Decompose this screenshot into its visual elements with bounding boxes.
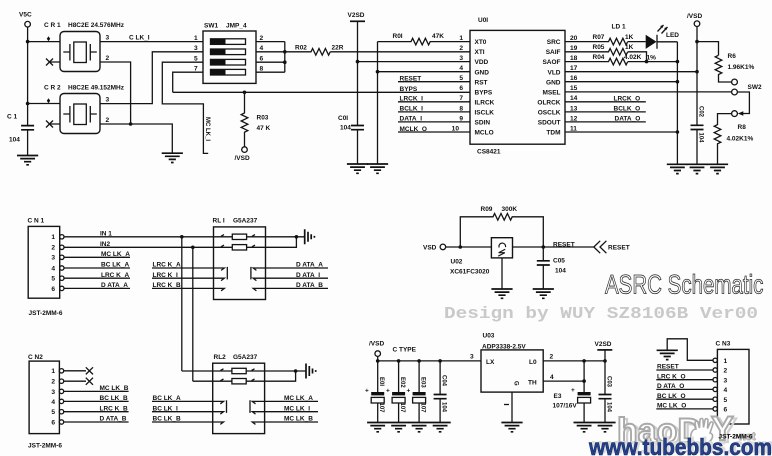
wire MCLK_B stub CN2.3 [64,390,129,392]
svg-text:2: 2 [106,117,110,124]
svg-text:R03: R03 [257,115,269,122]
switch SW2 [732,79,762,116]
node junction rail E03 [417,359,421,363]
ground below C04 [430,423,451,432]
node junction RESET/C05 [542,245,546,249]
relay RL2 G5A237 [182,354,265,434]
wire U03 L0 output to V2SD [543,360,605,362]
power /VSD below R03 [235,147,250,162]
svg-text:3: 3 [459,55,463,62]
svg-text:D ATA_I: D ATA_I [296,272,320,279]
wire CR1.2 down to CR2.2 net [100,62,131,124]
svg-text:3: 3 [51,389,55,396]
svg-text:V2SD: V2SD [595,341,612,348]
wire IN2 down to RL2 coil [192,247,194,381]
svg-text:5: 5 [724,397,728,404]
svg-text:C TYPE: C TYPE [393,347,417,354]
ground below C1 [17,156,38,165]
svg-text:2: 2 [550,354,554,361]
wire CR2.3 up to SW1.3 [100,52,203,104]
node junction SW1 bus pin4 [283,50,287,54]
svg-text:47 K: 47 K [257,125,271,132]
resistor R09 300K [460,206,543,247]
ground for CR2.2 [162,153,183,162]
svg-text:BC LK_B: BC LK_B [100,395,128,402]
wire U03 TH to output node [543,361,584,392]
svg-text:107: 107 [378,403,384,414]
wire V5C vertical rail [27,27,29,125]
svg-text:D ATA_O: D ATA_O [657,383,684,390]
svg-text:SDIN: SDIN [475,120,491,127]
wire LRCK_A stub CN1.5 [64,277,130,279]
svg-text:R04: R04 [593,54,605,61]
ground below U03 [501,423,522,432]
capacitor C01 104 [338,115,364,164]
svg-text:4: 4 [51,265,55,272]
wire R01/GND vertical rail [377,42,379,164]
svg-text:E03: E03 [419,377,425,388]
svg-text:2: 2 [459,45,463,52]
capacitor C05 104 [537,247,566,289]
wire CN2.2 no-connect [64,378,93,385]
power V5C [19,12,32,28]
wire GND row U01.16 [565,81,677,83]
svg-text:C05: C05 [553,258,565,265]
wire CN3.1 to ground [667,339,713,361]
wire RESET stub CN3.2 [656,369,713,371]
ground below E3 [574,423,595,432]
svg-text:TH: TH [528,379,537,386]
ground below C03 [594,423,615,432]
svg-text:CS8421: CS8421 [477,149,501,156]
svg-text:U0I: U0I [478,17,488,24]
wire /VSD to R6 [697,42,719,56]
svg-text:XC61FC3020: XC61FC3020 [450,268,490,275]
svg-text:LRCK_I: LRCK_I [400,96,424,103]
wire IN2 net CN1.2 to RL1 coil [64,246,214,248]
connector CN1 JST-2MM-6 [28,218,65,317]
svg-text:G5A237: G5A237 [233,354,258,361]
wire LRCK_I stub to U01.7 [398,101,470,103]
svg-text:IN 1: IN 1 [100,230,112,237]
svg-text:U02: U02 [451,259,463,266]
svg-text:104: 104 [698,133,704,144]
node junction CR1.2/CR2.2 [129,122,133,126]
svg-text:4.02K1%: 4.02K1% [727,135,754,142]
svg-text:LED: LED [666,32,679,39]
svg-text:1: 1 [724,358,728,365]
svg-text:LRC K_B: LRC K_B [153,282,181,289]
svg-text:LRC K_A: LRC K_A [101,272,129,279]
svg-text:104: 104 [9,137,20,144]
svg-text:ILRCK: ILRCK [475,99,495,106]
svg-text:MC LK_A: MC LK_A [284,395,313,402]
svg-text:V5C: V5C [19,12,32,19]
svg-text:E0I: E0I [378,377,384,386]
svg-text:/VSD: /VSD [235,155,250,162]
resistor R8 4.02K1% [714,114,753,165]
node junction rail/GND row [676,80,680,84]
svg-text:6: 6 [51,286,55,293]
wire DATA_I stub to U01.9 [398,121,470,123]
svg-text:4: 4 [51,399,55,406]
capacitor E01 107 (electrolytic) [365,377,384,423]
svg-text:OLRCK: OLRCK [537,99,560,106]
node junction output/E3 [582,359,586,363]
power V2SD top [348,12,366,126]
svg-text:C02: C02 [698,106,704,118]
wire BCLK_O stub CN3.5 [656,398,713,400]
svg-text:R05: R05 [593,44,605,51]
node junction /VSD to R6 [695,40,699,44]
capacitor E02 107 (electrolytic) [386,361,405,423]
svg-text:+: + [386,388,390,395]
svg-text:+: + [365,388,369,395]
svg-text:JST-2MM-6: JST-2MM-6 [28,443,62,450]
svg-text:SW1: SW1 [204,23,218,30]
svg-text:RESET: RESET [400,76,422,83]
svg-text:SW2: SW2 [748,84,762,91]
svg-text:C R 2: C R 2 [44,84,61,91]
capacitor C02 104 [691,106,704,164]
svg-text:+: + [571,387,575,394]
node junction rail E01 [376,359,380,363]
node junction TH/E3 [582,379,586,383]
node off-page connector RESET [594,241,630,253]
svg-text:17: 17 [570,65,578,72]
node pin1 mark [504,404,509,406]
resistor R6 1.96K1% [715,53,754,82]
svg-text:2: 2 [51,245,55,252]
wire /VSD rail to U03 LX [378,360,481,362]
svg-text:LRCK_O: LRCK_O [614,96,641,103]
wire OLRCK stub U01.14 [565,101,646,103]
wire MCLK_O stub to U01.10 [398,131,470,133]
svg-text:BC LK_A: BC LK_A [101,262,129,269]
wire VLD row U01.17 [565,71,697,73]
svg-text:107: 107 [419,403,425,414]
wire OSCLK stub U01.13 [565,111,646,113]
svg-text:104: 104 [440,402,446,413]
svg-text:D ATA_B: D ATA_B [100,416,127,423]
wire MCLK_A from RL2 contact [265,400,318,402]
power /VSD top right [687,13,702,125]
svg-text:104: 104 [605,402,611,413]
svg-text:C N3: C N3 [716,341,731,348]
svg-text:MCLK_O: MCLK_O [400,126,427,133]
svg-text:RL I: RL I [213,218,225,225]
svg-text:104: 104 [340,125,351,132]
power /VSD at regulator input [369,341,384,393]
wire TDM row U01.11 [565,131,677,133]
svg-text:JMP_4: JMP_4 [226,23,247,30]
ground RL1 (right facing) [305,229,315,244]
wire V5C to CR2 pin+ [28,103,60,105]
watermark www.tubebbs.com [588,433,772,456]
node junction R05/R04 [645,60,649,64]
svg-text:1: 1 [51,234,55,241]
svg-text:15: 15 [570,85,578,92]
relay RL1 G5A237 [213,218,266,300]
svg-text:8: 8 [260,65,264,72]
svg-text:MC LK_I: MC LK_I [204,117,210,141]
node junction V5C-CR1 [26,40,30,44]
capacitor E03 107 (electrolytic) [407,361,426,423]
ground below GND rail [367,164,388,173]
svg-text:LRC K_I: LRC K_I [153,272,178,279]
node junction GND rail [376,70,380,74]
wire R05 to R04 row [628,52,647,62]
wire MCLK_I from RL2 contact [265,411,318,413]
node junction IN1 branch [180,235,184,239]
svg-text:SAOF: SAOF [542,59,560,66]
wire IN1 net CN1.1 to RL1 coil [64,236,214,238]
svg-text:LRC K_O: LRC K_O [657,373,686,380]
svg-text:1K: 1K [625,44,634,51]
wire MSEL row U01.15 to SW2 [565,91,732,93]
connector CN3 JST-2MM-6 [713,341,753,441]
svg-text:BYPS: BYPS [475,89,493,96]
svg-text:MC LK_O: MC LK_O [657,403,686,410]
svg-text:C 1: C 1 [7,114,18,121]
wire BYPS net long run to U01.6 [173,91,470,93]
wire GND row to U01.4 [378,71,471,73]
svg-text:DATA_O: DATA_O [615,116,641,123]
power VSD at U02 [423,244,446,251]
svg-text:XTI: XTI [475,49,485,56]
svg-text:V2SD: V2SD [348,12,365,19]
svg-text:4: 4 [260,45,264,52]
svg-text:107: 107 [399,403,405,414]
svg-text:BCLK_I: BCLK_I [400,106,424,113]
wire R04 row to LED rail [628,61,678,63]
node junction VLD row [695,70,699,74]
wire DATA_B from RL1 contact [266,287,329,289]
regulator U03 ADP3338-2.5V [470,332,554,392]
svg-text:TDM: TDM [546,130,560,137]
resistor R03 47K [241,92,270,146]
capacitor C1 104 [7,114,34,156]
svg-text:VDD: VDD [475,59,489,66]
svg-text:RESET: RESET [553,241,575,248]
ground below E01 [367,423,388,432]
svg-text:47K: 47K [432,33,444,40]
svg-text:L0: L0 [529,359,537,366]
wire SW1.5 to MCLK_I [162,62,208,153]
wire IN1 down to RL2 coil [181,237,183,371]
resistor R07 1K [565,34,634,45]
wire SW1 right pins bus [256,42,285,73]
svg-text:300K: 300K [502,206,518,213]
node junction rail C04 [438,359,442,363]
svg-text:GND: GND [475,69,490,76]
switch SW1 JMP_4 [194,23,264,84]
svg-text:10: 10 [452,125,460,132]
svg-text:VSD: VSD [423,245,437,252]
connector CN2 JST-2MM-6 [28,354,64,450]
svg-text:1: 1 [51,368,55,375]
svg-text:U03: U03 [483,332,495,339]
svg-text:RESET: RESET [608,245,630,252]
capacitor C03 104 [599,361,612,423]
svg-text:+: + [407,388,411,395]
svg-text:4: 4 [550,374,554,381]
svg-text:C03: C03 [605,376,611,388]
svg-text:LD 1: LD 1 [612,24,626,31]
wire U03 gnd pin [511,392,513,422]
wire MCLK_B from RL2 contact [265,421,318,423]
svg-text:LX: LX [486,359,495,366]
ground below E02 [388,423,409,432]
svg-text:G: G [513,381,519,386]
svg-text:BYPS: BYPS [400,86,418,93]
svg-text:IN2: IN2 [100,241,111,248]
svg-text:VLD: VLD [548,69,561,76]
svg-text:3: 3 [51,255,55,262]
wire MCLK_O stub CN3.6 [656,408,713,410]
svg-text:7: 7 [194,65,198,72]
wire DATA_O stub CN3.4 [656,388,713,390]
svg-text:107/16V: 107/16V [553,402,578,409]
wire BCLK_A to RL2 contact [152,400,213,402]
node junction BYPS/R03 [243,91,247,95]
wire V5C to CR1 pin+ [28,41,60,43]
node junction SW1 bus pin6 [283,60,287,64]
svg-text:DATA_I: DATA_I [400,116,423,123]
svg-text:3: 3 [106,97,110,104]
svg-text:C LK_I: C LK_I [129,35,150,42]
svg-text:SDOUT: SDOUT [538,120,561,127]
svg-text:1: 1 [194,35,198,42]
wire BCLK_B to RL2 contact [152,421,213,423]
power V2SD at output [595,341,613,361]
svg-text:GND: GND [546,79,561,86]
resistor R04 4.02K 1% [565,54,656,65]
svg-text:R8: R8 [738,124,747,131]
op-amp U01 CS8421 [452,17,578,156]
node junction VSD/R09 [459,245,463,249]
wire LRCK_B stub CN2.5 [64,411,129,413]
svg-text:5: 5 [459,75,463,82]
svg-text:RST: RST [475,79,488,86]
resistor R05 1K [565,44,634,55]
svg-text:OSCLK: OSCLK [538,110,561,117]
svg-text:SAIF: SAIF [546,49,561,56]
svg-text:R09: R09 [481,206,493,213]
svg-text:LRC K_B: LRC K_B [100,405,128,412]
wire BCLK_I to RL2 contact [152,411,213,413]
svg-text:5: 5 [51,409,55,416]
svg-text:1.96K1%: 1.96K1% [728,64,755,71]
svg-text:3: 3 [194,45,198,52]
svg-text:4.02K: 4.02K [624,54,642,61]
svg-text:BCLK_O: BCLK_O [614,106,641,113]
wire MCLK_A stub CN1.3 [64,256,130,258]
wire R02 to U01.2 (XTI) [330,51,470,53]
svg-text:2: 2 [260,35,264,42]
svg-text:C N 1: C N 1 [28,218,45,225]
wire LRCK_I to RL1 contact [152,277,214,279]
wire RL1 coil common to ground [266,237,305,248]
node junction IN2 branch [191,246,195,250]
wire DATA_A stub CN1.6 [64,287,130,289]
svg-text:3: 3 [106,35,110,42]
svg-text:3: 3 [470,354,474,361]
svg-text:MCLO: MCLO [475,130,494,137]
wire RL2 coil common to ground [265,371,306,381]
wire U02 gnd pin [501,258,503,289]
node junction R04/LED rail [676,60,680,64]
svg-text:3: 3 [724,377,728,384]
wire SDOUT stub U01.12 [565,121,646,123]
svg-text:4: 4 [459,65,463,72]
svg-text:6: 6 [459,85,463,92]
svg-text:16: 16 [570,75,578,82]
wire LRCK_A to RL1 contact [152,267,214,269]
svg-text:ASRC Schematic: ASRC Schematic [605,270,763,300]
svg-text:BC LK_I: BC LK_I [153,405,178,412]
svg-text:R02: R02 [295,45,307,52]
svg-text:RESET: RESET [657,364,679,371]
LED LD1 [612,24,680,49]
svg-text:MC LK_I: MC LK_I [284,405,310,412]
node junction RL2 coil common [294,369,298,373]
svg-text:C R 1: C R 1 [44,22,61,29]
capacitor C04 104 [434,361,447,423]
svg-text:G5A237: G5A237 [233,218,258,225]
wire LRCK_B to RL1 contact [152,287,214,289]
svg-text:LRC K_A: LRC K_A [153,262,181,269]
svg-text:9: 9 [459,115,463,122]
svg-text:C0I: C0I [338,115,348,122]
node junction V5C-CR2 [26,102,30,106]
crystal oscillator CR1 H8C2E 24.576MHz [44,22,125,72]
wire BCLK_I stub to U01.8 [398,111,470,113]
node junction V2SD/VDD [356,60,360,64]
svg-text:/VSD: /VSD [369,341,384,348]
node junction rail E02 [397,359,401,363]
svg-text:R6: R6 [728,53,737,60]
crystal oscillator CR2 H8C2E 49.152MHz [44,84,125,133]
wire RESET net U02 out [513,246,594,248]
ground below E03 [409,423,430,432]
svg-text:/VSD: /VSD [687,13,702,20]
svg-text:2: 2 [724,368,728,375]
svg-text:R0I: R0I [393,33,403,40]
svg-text:E02: E02 [399,377,405,388]
wire DATA_A from RL1 contact [266,267,329,269]
resistor R02 22R [285,45,344,55]
svg-text:D ATA_B: D ATA_B [296,282,323,289]
svg-text:C04: C04 [440,375,446,387]
ground for CN3.1 [657,350,678,359]
svg-text:RL2: RL2 [214,354,227,361]
svg-text:BC LK_O: BC LK_O [657,393,686,400]
ground below U02 [491,289,512,298]
node junction output/C03 [603,359,607,363]
wire DATA_B stub CN2.6 [64,421,129,423]
ground RL2 (right facing) [306,364,316,379]
svg-text:6: 6 [51,419,55,426]
svg-text:11: 11 [570,125,577,132]
ground below R8 [707,164,728,173]
svg-text:H8C2E 24.576MHz: H8C2E 24.576MHz [68,22,125,29]
svg-text:XT0: XT0 [475,39,487,46]
wire VDD row to U01.3 [358,61,471,63]
ground below C02 [686,164,707,173]
svg-text:22R: 22R [332,45,344,52]
svg-text:JST-2MM-6: JST-2MM-6 [719,434,753,441]
